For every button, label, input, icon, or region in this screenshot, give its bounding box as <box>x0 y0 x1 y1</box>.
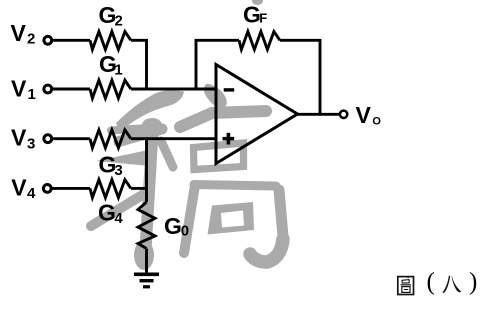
wire output <box>298 113 340 116</box>
watermark draft character 稿 <box>91 0 284 270</box>
terminal V2 <box>44 36 52 44</box>
svg-text:3: 3 <box>114 162 122 179</box>
svg-text:4: 4 <box>27 185 36 202</box>
resistor GF <box>239 32 280 50</box>
禾 bar left tail <box>111 128 148 131</box>
wire G3 to op-amp plus input <box>131 137 216 140</box>
高 frame top bar <box>194 185 276 187</box>
wire V1 lead <box>52 88 90 91</box>
wire node column <box>145 139 148 202</box>
svg-text:1: 1 <box>28 86 36 103</box>
resistor G3 <box>90 130 131 148</box>
高 long horizontal <box>180 111 266 127</box>
禾 right dot <box>161 141 173 167</box>
svg-text:V: V <box>11 75 27 101</box>
svg-text:G: G <box>164 213 182 239</box>
wire V2 lead <box>52 39 90 42</box>
svg-text:2: 2 <box>115 13 123 30</box>
op-amp plus sign <box>223 133 235 145</box>
svg-text:1: 1 <box>114 61 122 78</box>
terminal V3 <box>44 135 52 143</box>
resistor G2 <box>90 32 131 50</box>
terminal VO output <box>340 111 347 118</box>
op-amp minus sign <box>224 88 235 91</box>
gray dot artifact top <box>252 0 263 5</box>
wire G1 to op-amp minus input <box>131 88 216 91</box>
高 inner box <box>208 202 255 235</box>
terminal V1 <box>44 85 52 93</box>
circuit black layer <box>43 32 347 274</box>
禾 stem top knob <box>142 118 162 132</box>
wire G4 to node <box>131 187 147 190</box>
op-amp U1 <box>216 65 298 164</box>
svg-text:4: 4 <box>114 210 123 227</box>
高 hook <box>250 239 283 262</box>
高 top tick <box>204 84 227 109</box>
禾 lower diagonal <box>91 191 149 226</box>
caption 八 eight character <box>442 275 461 292</box>
svg-text:G: G <box>98 199 116 225</box>
svg-text:G: G <box>243 2 261 28</box>
ground <box>134 273 159 289</box>
高 frame left leg <box>184 185 195 253</box>
wire V3 lead <box>52 137 90 140</box>
svg-text:(: ( <box>427 269 435 296</box>
svg-text:2: 2 <box>27 31 35 48</box>
caption 圖 figure character <box>398 276 414 294</box>
terminal V4 <box>43 185 51 193</box>
禾 left wedge diagonal <box>96 150 151 166</box>
svg-text:V: V <box>11 175 27 201</box>
wire G0 to ground <box>145 249 148 274</box>
wire G2 to node <box>131 40 147 89</box>
禾 vertical stem <box>146 124 154 250</box>
svg-text:0: 0 <box>181 223 189 240</box>
禾 top flat slash <box>116 90 184 132</box>
svg-text:3: 3 <box>27 135 35 152</box>
svg-text:O: O <box>372 116 381 128</box>
svg-text:F: F <box>259 11 267 26</box>
高 small box <box>194 143 244 170</box>
wire feedback riser <box>196 40 239 89</box>
wire V4 lead <box>52 187 90 190</box>
resistor G4 <box>90 180 131 198</box>
wire GF to output <box>280 40 320 114</box>
svg-text:V: V <box>11 20 27 46</box>
禾 stem bottom blob <box>134 240 154 270</box>
resistor G0 <box>138 202 155 249</box>
禾 horizontal bar <box>119 129 162 142</box>
svg-text:V: V <box>356 102 372 128</box>
svg-text:): ) <box>469 269 477 296</box>
resistor G1 <box>90 80 131 98</box>
svg-text:V: V <box>11 125 27 151</box>
高 frame right leg <box>279 190 284 242</box>
